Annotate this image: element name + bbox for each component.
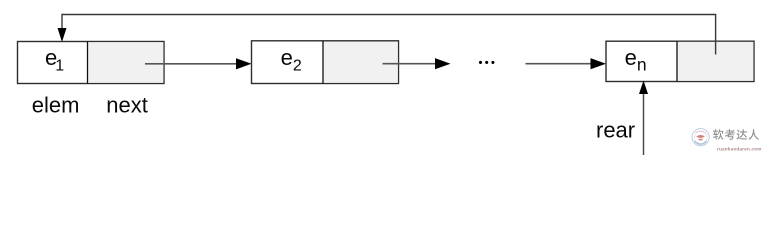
arrowhead down into node N1 top [58, 28, 67, 42]
arrowhead into node N2 [236, 58, 252, 69]
label next [106, 92, 148, 117]
ellipsis node (...) [479, 61, 495, 64]
rear pointer arrow up to node N3 bottom [639, 81, 648, 156]
label rear [596, 118, 635, 143]
node N3 box [606, 41, 754, 81]
svg-text:next: next [106, 92, 148, 117]
feedback wire from node N3 next cell to node N1 (circular link) [62, 15, 716, 55]
node N2 box [252, 41, 399, 84]
watermark text ruankaodaren [713, 129, 762, 152]
wire from node N2 next cell toward ellipsis [383, 63, 438, 65]
label e1 in node N1 [45, 45, 64, 75]
label en in node N3 [625, 45, 647, 75]
wire from node N1 next cell to node N2 [145, 63, 238, 65]
wire from ellipsis to node N3 [526, 63, 593, 65]
svg-text:rear: rear [596, 118, 635, 143]
svg-text:ruankaodaren.com: ruankaodaren.com [717, 146, 762, 152]
label elem [32, 92, 80, 117]
arrowhead pointing at ellipsis [435, 58, 451, 69]
node N1 box (elem|next cells) [18, 42, 165, 84]
arrowhead into node N3 [591, 58, 607, 69]
svg-text:elem: elem [32, 92, 80, 117]
label e2 in node N2 [281, 45, 302, 75]
watermark logo emblem [692, 129, 709, 146]
